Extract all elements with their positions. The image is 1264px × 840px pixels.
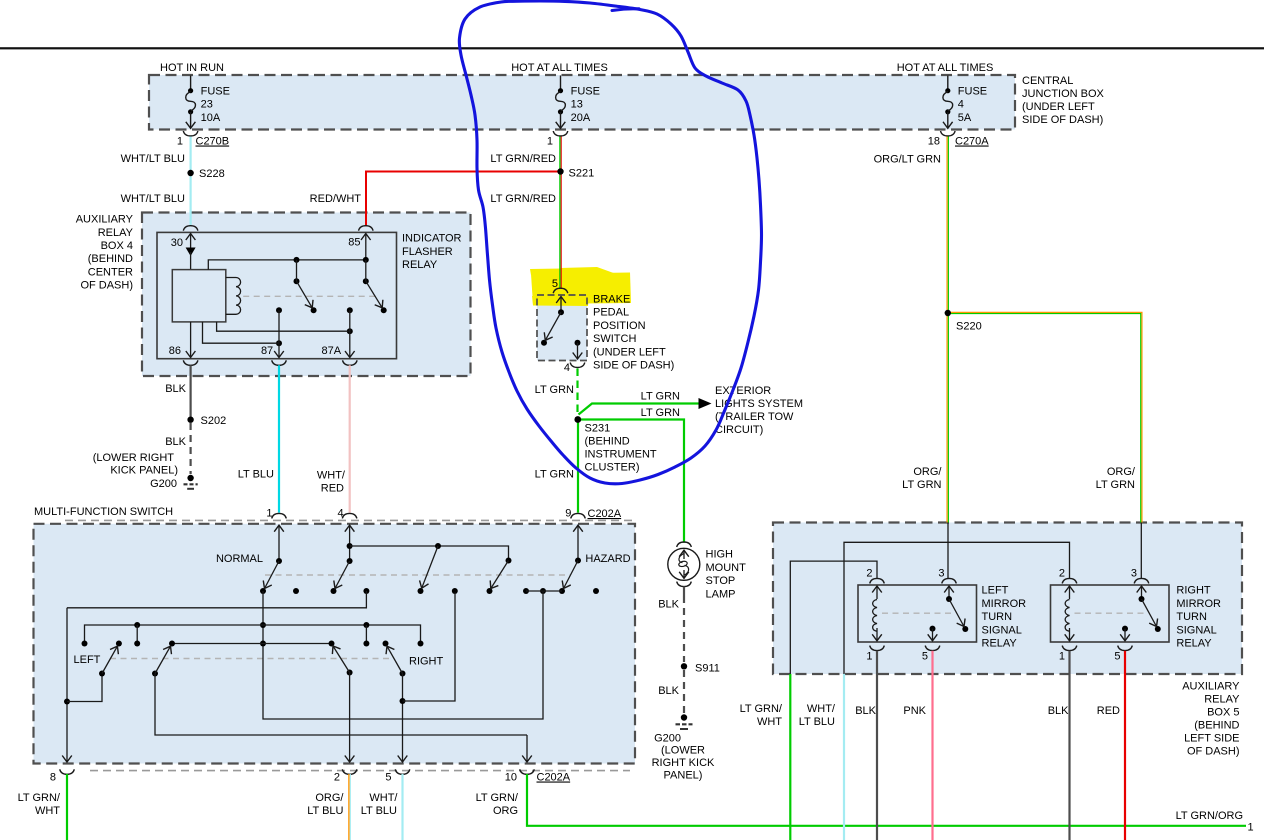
svg-text:10A: 10A (201, 112, 221, 124)
svg-text:BLK: BLK (165, 383, 186, 395)
svg-text:LT GRN: LT GRN (535, 384, 574, 396)
splice S221 (557, 168, 563, 174)
svg-text:SIGNAL: SIGNAL (1176, 624, 1216, 636)
central junction box border (149, 75, 1015, 130)
brake switch output contact (575, 340, 581, 346)
svg-text:HAZARD: HAZARD (585, 553, 630, 565)
svg-text:C202A: C202A (588, 508, 622, 520)
auxiliary relay box 4 (142, 213, 471, 377)
svg-text:BLK: BLK (165, 436, 186, 448)
svg-text:OF DASH): OF DASH) (1187, 746, 1240, 758)
indicator flasher relay body (157, 232, 397, 358)
svg-text:RED/WHT: RED/WHT (310, 193, 362, 205)
svg-text:WHT/LT BLU: WHT/LT BLU (121, 193, 185, 205)
svg-text:4: 4 (958, 99, 964, 111)
wire LT GRN/RED (fuse 13 to S221) (559, 137, 561, 172)
svg-text:RED: RED (1097, 705, 1120, 717)
svg-text:BLK: BLK (658, 685, 679, 697)
wire ORG/LT BLU (MFS pin 2) (348, 774, 350, 840)
svg-text:LT BLU: LT BLU (307, 805, 343, 817)
svg-text:FUSE: FUSE (571, 86, 600, 98)
svg-text:STOP: STOP (706, 575, 736, 587)
brake switch blade (560, 297, 562, 312)
central junction box (149, 75, 1015, 130)
wire LT GRN (S231 to exterior lights arrow) (579, 404, 700, 415)
relay mechanical dashed link (243, 295, 376, 297)
MFS pin 9 / connector C202A (571, 513, 586, 518)
wire ORG/LT GRN (S220 to left mirror relay pin 3) (946, 313, 948, 523)
wire WHT/LT BLU (box 5 to bottom) (843, 674, 845, 840)
svg-text:(UNDER LEFT: (UNDER LEFT (1022, 101, 1095, 113)
wire ORG/LT GRN (S220 branch to right mirror relay pin 3) (948, 312, 1142, 522)
wire BLK (pin 86 to S202) (190, 365, 192, 419)
wire coil to 87A junction (217, 322, 350, 331)
svg-text:MIRROR: MIRROR (1176, 598, 1221, 610)
contact dots row (363, 588, 599, 594)
wire pivot to contact 455 (403, 593, 456, 702)
svg-text:LT GRN/RED: LT GRN/RED (490, 153, 556, 165)
svg-text:TURN: TURN (1176, 611, 1207, 623)
svg-text:TURN: TURN (982, 611, 1013, 623)
svg-text:LT GRN: LT GRN (902, 479, 941, 491)
svg-text:(TRAILER TOW: (TRAILER TOW (715, 411, 794, 423)
pin 87 column (276, 307, 282, 346)
svg-text:ORG/: ORG/ (913, 466, 942, 478)
wire RED (right relay pin 5) (1124, 651, 1126, 840)
svg-text:1: 1 (866, 651, 872, 663)
wire to left relay pin 3 (internal) (947, 523, 949, 579)
svg-text:BRAKE: BRAKE (593, 294, 630, 306)
left relay coil (873, 600, 877, 632)
svg-text:LT GRN: LT GRN (641, 391, 680, 403)
MFS mechanical link (lower row) (110, 658, 393, 660)
right mirror turn signal relay body (1051, 585, 1170, 642)
ground G200 (left) (187, 475, 193, 481)
connector C202A bottom harness line (90, 770, 630, 772)
internal bus to pin 85 (208, 260, 368, 270)
svg-text:LT BLU: LT BLU (238, 469, 274, 481)
svg-text:CIRCUIT): CIRCUIT) (715, 424, 763, 436)
svg-text:SIGNAL: SIGNAL (982, 624, 1022, 636)
pin 85 (365, 234, 367, 260)
wire ORG/LT GRN (C270A to S220) (946, 137, 948, 314)
svg-text:HOT AT ALL TIMES: HOT AT ALL TIMES (511, 62, 608, 74)
high mount stop lamp (677, 542, 692, 547)
right relay coil (1065, 600, 1069, 632)
svg-text:C270A: C270A (955, 136, 989, 148)
wire LT GRN/RED (S221 to brake switch pin 5) (559, 172, 561, 290)
auxiliary relay box 5 (773, 523, 1242, 675)
bus2 stub at 366 (365, 625, 367, 644)
wire RED/WHT (S221 to relay pin 85) (366, 172, 561, 227)
svg-text:LT GRN: LT GRN (641, 407, 680, 419)
svg-text:WHT: WHT (757, 716, 782, 728)
wire PNK (left relay pin 5) (931, 651, 933, 840)
wire BLK (right relay pin 1) (1068, 651, 1070, 840)
wire WHT/LT BLU (MFS pin 5) (401, 774, 403, 840)
svg-text:AUXILIARY: AUXILIARY (76, 214, 134, 226)
wire BLK (S911 to G200, dashed) (683, 670, 685, 714)
svg-text:S911: S911 (695, 663, 720, 675)
svg-text:RIGHT: RIGHT (409, 656, 444, 668)
auxiliary relay box 5 border (773, 523, 1242, 675)
multi-function switch box (34, 524, 636, 764)
svg-text:CENTRAL: CENTRAL (1022, 75, 1073, 87)
svg-text:HOT IN RUN: HOT IN RUN (160, 62, 224, 74)
svg-text:SIDE OF DASH): SIDE OF DASH) (1022, 114, 1103, 126)
MFS pin 4 (342, 513, 357, 518)
wire WHT/LT BLU (C270B to S228) (190, 137, 192, 174)
svg-text:PANEL): PANEL) (664, 770, 703, 782)
svg-text:9: 9 (565, 507, 571, 519)
wire LT GRN (brake pin 4 to S231, dashed) (576, 369, 578, 420)
wire LT GRN/WHT (MFS pin 8) (66, 774, 68, 840)
MFS pin 1 (272, 513, 287, 518)
wire LT BLU (pin 87 to MFS pin 1) (278, 365, 280, 512)
svg-text:1: 1 (177, 136, 183, 148)
relay coil box (172, 270, 226, 322)
svg-text:RELAY: RELAY (982, 638, 1018, 650)
wire BLK (left relay pin 1) (876, 651, 878, 840)
svg-text:FUSE: FUSE (201, 86, 230, 98)
svg-text:3: 3 (938, 568, 944, 580)
switch blade at 438 (418, 543, 442, 594)
splice S202 (187, 417, 193, 423)
left relay pin 5 (930, 626, 936, 632)
MFS mechanical link (upper row) (265, 574, 570, 576)
svg-text:LEFT SIDE: LEFT SIDE (1184, 733, 1239, 745)
contact switch B (363, 257, 387, 313)
fuse 13 20A (556, 76, 600, 129)
svg-text:87A: 87A (322, 345, 342, 357)
ground G200 (center) (681, 714, 687, 720)
blue pen retrace mark (612, 9, 639, 11)
svg-text:(BEHIND: (BEHIND (1194, 720, 1239, 732)
wire LT GRN/WHT (box 5 to bottom) (789, 674, 791, 840)
svg-text:(BEHIND: (BEHIND (88, 253, 133, 265)
svg-text:RELAY: RELAY (402, 259, 438, 271)
svg-text:S202: S202 (201, 415, 227, 427)
svg-text:WHT/: WHT/ (317, 470, 346, 482)
svg-text:FUSE: FUSE (958, 86, 987, 98)
svg-text:2: 2 (866, 568, 872, 580)
svg-text:FLASHER: FLASHER (402, 246, 453, 258)
svg-text:(BEHIND: (BEHIND (585, 436, 630, 448)
svg-text:20A: 20A (571, 112, 591, 124)
svg-text:WHT/: WHT/ (369, 792, 398, 804)
svg-text:(LOWER RIGHT: (LOWER RIGHT (93, 452, 175, 464)
svg-text:MOUNT: MOUNT (706, 562, 747, 574)
right relay pin 1 (1062, 646, 1077, 651)
switch on pin 4 (349, 525, 351, 561)
svg-text:8: 8 (50, 772, 56, 784)
relay coil winding (226, 278, 241, 315)
svg-text:HIGH: HIGH (706, 549, 734, 561)
fuse 23 10A (186, 76, 230, 129)
splice S220 (945, 310, 951, 316)
brake pedal position switch border (537, 295, 587, 361)
yellow highlight annotation (530, 267, 631, 306)
svg-text:G200: G200 (150, 478, 177, 490)
svg-text:RELAY: RELAY (1176, 638, 1212, 650)
svg-text:87: 87 (261, 345, 273, 357)
svg-text:5: 5 (1114, 651, 1120, 663)
svg-text:1: 1 (266, 507, 272, 519)
pin 30 (190, 234, 192, 253)
svg-text:KICK PANEL): KICK PANEL) (110, 465, 178, 477)
contact switch A (294, 257, 317, 313)
svg-text:LEFT: LEFT (982, 585, 1009, 597)
svg-text:OF DASH): OF DASH) (80, 280, 133, 292)
svg-text:S220: S220 (956, 321, 982, 333)
contact dot (nc) (293, 588, 299, 594)
svg-text:ORG/: ORG/ (1107, 466, 1136, 478)
wire pin4 bus to blades (350, 546, 509, 561)
wire BLK (lamp to S911, dashed) (683, 596, 685, 662)
svg-text:LT GRN/ORG: LT GRN/ORG (1176, 810, 1243, 822)
left relay pin 2 (870, 578, 885, 583)
svg-text:AUXILIARY: AUXILIARY (1182, 681, 1240, 693)
wire LT GRN/ORG (MFS pin 10 to right edge) (527, 774, 1246, 826)
MFS pin 10 / connector C202A (520, 769, 535, 774)
svg-text:WHT: WHT (35, 805, 60, 817)
svg-text:4: 4 (337, 507, 343, 519)
wire to right relay pin 3 (internal) (1140, 523, 1142, 579)
svg-text:BOX 4: BOX 4 (101, 240, 133, 252)
svg-text:1: 1 (1248, 822, 1254, 834)
svg-text:PEDAL: PEDAL (593, 307, 629, 319)
exterior lights system arrow (699, 398, 712, 409)
connector C270A pin 18 (928, 131, 990, 148)
svg-text:POSITION: POSITION (593, 320, 646, 332)
right relay pin 5 (1122, 626, 1128, 632)
left relay mechanical dashed link (882, 612, 954, 614)
left mirror turn signal relay body (858, 585, 977, 642)
svg-text:18: 18 (928, 136, 940, 148)
svg-text:CLUSTER): CLUSTER) (585, 462, 640, 474)
right relay mechanical dashed link (1075, 612, 1147, 614)
svg-text:86: 86 (169, 345, 181, 357)
wire hazard feed loop (263, 591, 543, 719)
wire coil to 87 junction (203, 322, 280, 343)
svg-text:LT GRN: LT GRN (1096, 479, 1135, 491)
MFS pin 8 (60, 769, 75, 774)
svg-text:30: 30 (171, 237, 183, 249)
svg-text:10: 10 (505, 772, 517, 784)
svg-text:BOX 5: BOX 5 (1207, 707, 1239, 719)
brake pedal position switch pin 4 (570, 363, 585, 368)
svg-text:BLK: BLK (1048, 705, 1069, 717)
svg-text:MIRROR: MIRROR (982, 598, 1027, 610)
diode arrow on pin 30 (186, 248, 196, 257)
right relay pin 3 / contact (1134, 578, 1149, 583)
bus2 stub at 137 (136, 625, 138, 644)
splice S231 (574, 416, 581, 423)
svg-text:LT GRN/: LT GRN/ (740, 703, 783, 715)
svg-text:EXTERIOR: EXTERIOR (715, 385, 771, 397)
svg-text:RED: RED (321, 483, 344, 495)
svg-text:LAMP: LAMP (706, 588, 736, 600)
svg-text:NORMAL: NORMAL (216, 553, 263, 565)
wire to right relay pin 2 (internal) (844, 542, 1070, 674)
wire LEFT pivot step (67, 674, 102, 702)
svg-text:S221: S221 (569, 168, 595, 180)
svg-text:85: 85 (348, 236, 360, 248)
MFS pin 2 (342, 769, 357, 774)
svg-text:PNK: PNK (903, 705, 926, 717)
brake pedal position switch box (537, 295, 587, 361)
connector C270B pin 1 (177, 131, 229, 148)
left relay pin 1 (870, 646, 885, 651)
svg-text:5A: 5A (958, 112, 972, 124)
svg-text:RELAY: RELAY (98, 227, 134, 239)
svg-text:LT GRN/: LT GRN/ (18, 792, 61, 804)
auxiliary relay box 4 border (142, 213, 471, 377)
svg-text:5: 5 (922, 651, 928, 663)
svg-text:RIGHT: RIGHT (1176, 585, 1211, 597)
connector pin 1 (fuse 13) (547, 131, 568, 148)
svg-text:LT BLU: LT BLU (361, 805, 397, 817)
svg-text:23: 23 (201, 99, 213, 111)
wire contact 526 to 562 (526, 590, 562, 592)
svg-text:5: 5 (385, 772, 391, 784)
wire LT GRN (S231 to MFS pin 9) (577, 420, 579, 513)
svg-text:LT BLU: LT BLU (799, 716, 835, 728)
connector C202A top harness line (65, 519, 632, 521)
svg-text:LT GRN/RED: LT GRN/RED (490, 193, 556, 205)
svg-text:1: 1 (547, 136, 553, 148)
svg-text:ORG/: ORG/ (315, 792, 344, 804)
svg-text:LT GRN: LT GRN (535, 469, 574, 481)
svg-text:INDICATOR: INDICATOR (402, 233, 462, 245)
svg-text:(UNDER LEFT: (UNDER LEFT (593, 346, 666, 358)
splice S911 (681, 663, 687, 669)
multi-function switch border (34, 524, 636, 764)
svg-text:3: 3 (1131, 568, 1137, 580)
svg-text:RIGHT KICK: RIGHT KICK (652, 757, 715, 769)
wire LT GRN (S231 to high mount stop lamp) (578, 420, 684, 543)
svg-text:WHT/LT BLU: WHT/LT BLU (121, 153, 185, 165)
svg-text:13: 13 (571, 99, 583, 111)
svg-text:MULTI-FUNCTION SWITCH: MULTI-FUNCTION SWITCH (34, 506, 173, 518)
svg-text:1: 1 (1059, 651, 1065, 663)
svg-text:LEFT: LEFT (74, 654, 101, 666)
svg-text:INSTRUMENT: INSTRUMENT (585, 449, 657, 461)
pin 87A column (347, 307, 353, 334)
svg-text:JUNCTION BOX: JUNCTION BOX (1022, 88, 1105, 100)
svg-text:SIDE OF DASH): SIDE OF DASH) (593, 360, 674, 372)
svg-text:S228: S228 (199, 168, 225, 180)
svg-text:HOT AT ALL TIMES: HOT AT ALL TIMES (897, 62, 994, 74)
wire WHT/LT BLU (S228 to relay pin 30) (190, 173, 192, 226)
svg-text:C202A: C202A (537, 772, 571, 784)
svg-text:LT GRN/: LT GRN/ (476, 792, 519, 804)
wire WHT/RED (pin 87A to MFS pin 4) (349, 365, 351, 512)
pin 86 (190, 322, 192, 358)
fuse 4 5A (943, 76, 987, 129)
svg-text:SWITCH: SWITCH (593, 333, 636, 345)
svg-text:C270B: C270B (196, 136, 230, 148)
svg-text:ORG: ORG (493, 805, 518, 817)
svg-text:2: 2 (334, 772, 340, 784)
svg-text:CENTER: CENTER (88, 266, 133, 278)
wire to left relay pin 2 (internal) (790, 561, 877, 674)
svg-text:2: 2 (1059, 568, 1065, 580)
svg-text:BLK: BLK (855, 705, 876, 717)
blue freehand circle annotation (459, 1, 761, 484)
bus2 (85, 625, 421, 644)
svg-text:S231: S231 (585, 423, 611, 435)
svg-text:ORG/LT GRN: ORG/LT GRN (874, 154, 941, 166)
bus3 (172, 643, 332, 645)
brake pedal position switch pin 5 (553, 288, 568, 293)
svg-text:(LOWER: (LOWER (661, 745, 705, 757)
switch RIGHT blade to pin 5 (383, 641, 406, 677)
svg-text:G200: G200 (654, 733, 681, 745)
svg-text:WHT/: WHT/ (807, 703, 836, 715)
splice S228 (187, 170, 193, 176)
svg-text:BLK: BLK (658, 599, 679, 611)
left relay pin 3 / contact (942, 578, 957, 583)
right relay pin 2 (1062, 578, 1077, 583)
wire BLK (S202 to G200) (190, 423, 192, 474)
switch blade at 508 (487, 558, 512, 595)
MFS pin 5 (395, 769, 410, 774)
svg-text:4: 4 (564, 362, 570, 374)
svg-text:RELAY: RELAY (1204, 694, 1240, 706)
svg-text:5: 5 (552, 278, 558, 290)
wire bus1 to pin 8 (67, 591, 366, 608)
switch blade to pin 10 (152, 671, 158, 677)
